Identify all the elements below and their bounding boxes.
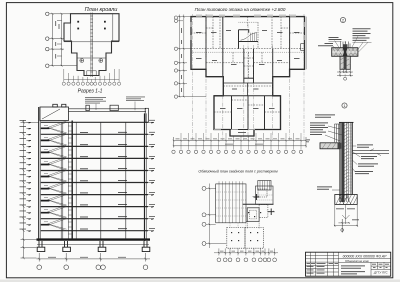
detail 1 top text [315,115,335,118]
section floor level labels mid column [118,132,127,229]
svg-text:План кровли: План кровли [85,7,118,13]
floor plan right bay box [301,44,305,51]
floor plan left dimension column [178,15,206,98]
section axis circles [37,265,148,270]
roof spec text block 1 [85,97,106,103]
elevation numbers left margin [20,120,27,229]
detail 1 wall course ticks [347,125,353,191]
roof plan bottom axis circles [62,82,120,85]
detail 1 right leaders [352,146,381,172]
title block small texts [307,263,339,274]
detail 1 left callout text [310,123,328,135]
detail 2 joint dark center [343,48,348,57]
title: Plan tipovogo etazha [195,7,286,12]
elevator shaft ticks [68,126,72,234]
roof plan inner lines [64,14,119,58]
detail 1 right floor lines [352,151,389,154]
block B hatch [256,181,274,201]
detail 2 wall below center strip [344,56,347,69]
detail 2 slab mid gap [332,51,357,53]
roof plan center axis [90,13,93,78]
title block object name [345,259,370,263]
roof plan left dim numbers [55,21,59,59]
foundation pile cross marks [254,194,275,215]
svg-text:Разрез 1-1: Разрез 1-1 [78,89,103,95]
detail 1 bottom axis mark [341,219,344,233]
foundation bottom axis circles [217,258,277,262]
floor plan bottom axis circles [172,150,303,153]
floor plan dim numbers [176,139,300,145]
roof plan outline [64,14,119,76]
floor plan bottom dimension lines [174,137,307,148]
foundation connector dotted lines [230,223,246,228]
detail 2 slab band [332,48,358,57]
roof hatch circles [80,59,103,76]
foundation left axis [202,186,206,245]
detail 2 right callout text [353,28,371,40]
foundation thick bar [243,203,274,205]
detail 1 wall hatch [344,123,349,200]
spec leaders [96,102,135,111]
detail 2 left callout text [318,37,342,46]
detail 1 left leader lines [325,126,342,190]
title: Plan krovli [85,7,118,13]
section ground slab [37,238,151,240]
detail 2 wall above dark patch [343,44,348,48]
section right elevation numbers [149,120,155,229]
title block org name [373,270,389,274]
section walls vertical [39,107,147,241]
foundation dim numbers [220,250,273,253]
detail 2 wall above slab [341,42,351,48]
floor plan left dim numbers [180,28,183,92]
foundation block C middle square [247,205,268,222]
detail 2 bottom axis circle [344,41,347,80]
detail 2 right leaders [352,36,372,52]
floor plan stair core [239,22,259,49]
detail 2 bottom dimension [337,69,353,76]
foundation pile mark dims [253,196,275,212]
detail 1 bottom-left text [317,187,332,190]
section floor slabs [41,122,149,230]
title block center cell text [341,266,365,275]
detail 1 parapet left [335,124,341,142]
floor plan partitions dashed [191,17,305,112]
foundation bottom dimension [214,248,278,255]
elevation flags left margin [27,122,32,231]
floor plan window lines [191,15,305,130]
section floor level labels left column [80,132,88,229]
svg-text:2: 2 [342,19,344,23]
title block stage cells [372,264,389,268]
foundation block B top-right [256,181,274,205]
svg-text:000000 ХХХ 000000 ФЗ АР: 000000 ХХХ 000000 ФЗ АР [343,254,388,258]
svg-text:Обвязочный план свайного поля: Обвязочный план свайного поля с ростверк… [198,170,278,174]
basement floor line [37,244,149,246]
section right elevation flags [148,122,154,231]
title: Razrez 1-1 [78,89,103,95]
roof plan left dimension column [50,13,78,67]
floor plan interior thick walls [206,17,290,130]
foundation block D bottom [227,228,264,249]
detail 1 left slab [320,143,341,149]
title block outer [306,252,391,276]
foundation left dimension line [206,184,226,249]
svg-text:ДГТУ ПГС: ДГТУ ПГС [373,270,389,274]
floor plan room labels [196,30,300,133]
foundation connecting lines [246,221,259,228]
block A hatch [216,181,246,223]
floor plan window gaps top wall [191,17,305,130]
detail 2 marker circle [340,17,345,22]
detail 2 wall below [340,56,350,69]
section dim numbers [48,256,126,259]
section stair half landings [41,128,50,224]
detail 1 wall dark strip [341,122,344,202]
section foundation footings [37,241,150,252]
svg-text:1: 1 [344,104,346,108]
roof spec text block 2 [126,97,145,101]
section roof parapet [69,105,149,122]
title block grid [306,252,391,276]
detail 1 footing [335,195,357,205]
block D dots [231,212,261,241]
section bottom dimension line [37,253,151,262]
detail 1 marker circle [342,103,347,108]
detail 1 wall column [339,122,354,202]
floor plan right wall face [305,17,307,70]
section stair flights [44,121,67,231]
foundation block A with pile hatch [216,184,246,223]
svg-text:Общежитие коек: Общежитие коек [345,259,370,263]
floor plan bottom extension ticks [173,133,307,150]
floor plan outer walls [191,17,305,136]
roof vents and drains [77,21,106,30]
detail 1 bottom dimensions [334,204,358,226]
roof plan bottom extension lines [64,69,119,82]
roof plan left axis circles [46,12,49,67]
title: pile field plan [198,170,278,174]
floor plan axis dashdot verticals [192,14,304,140]
title block doc number [343,254,388,258]
section penthouse [40,104,69,120]
detail 1 right callout texts [355,145,378,175]
detail 1 slab junction dark [338,143,342,149]
detail 2 left leader [329,41,342,51]
svg-text:План типового этажа на отметке: План типового этажа на отметке +2.800 [195,7,286,12]
left dimension chain [21,120,39,259]
floor plan left axis circles [174,16,177,98]
detail 1 bottom text [336,209,359,221]
note mark near frame [307,140,311,143]
